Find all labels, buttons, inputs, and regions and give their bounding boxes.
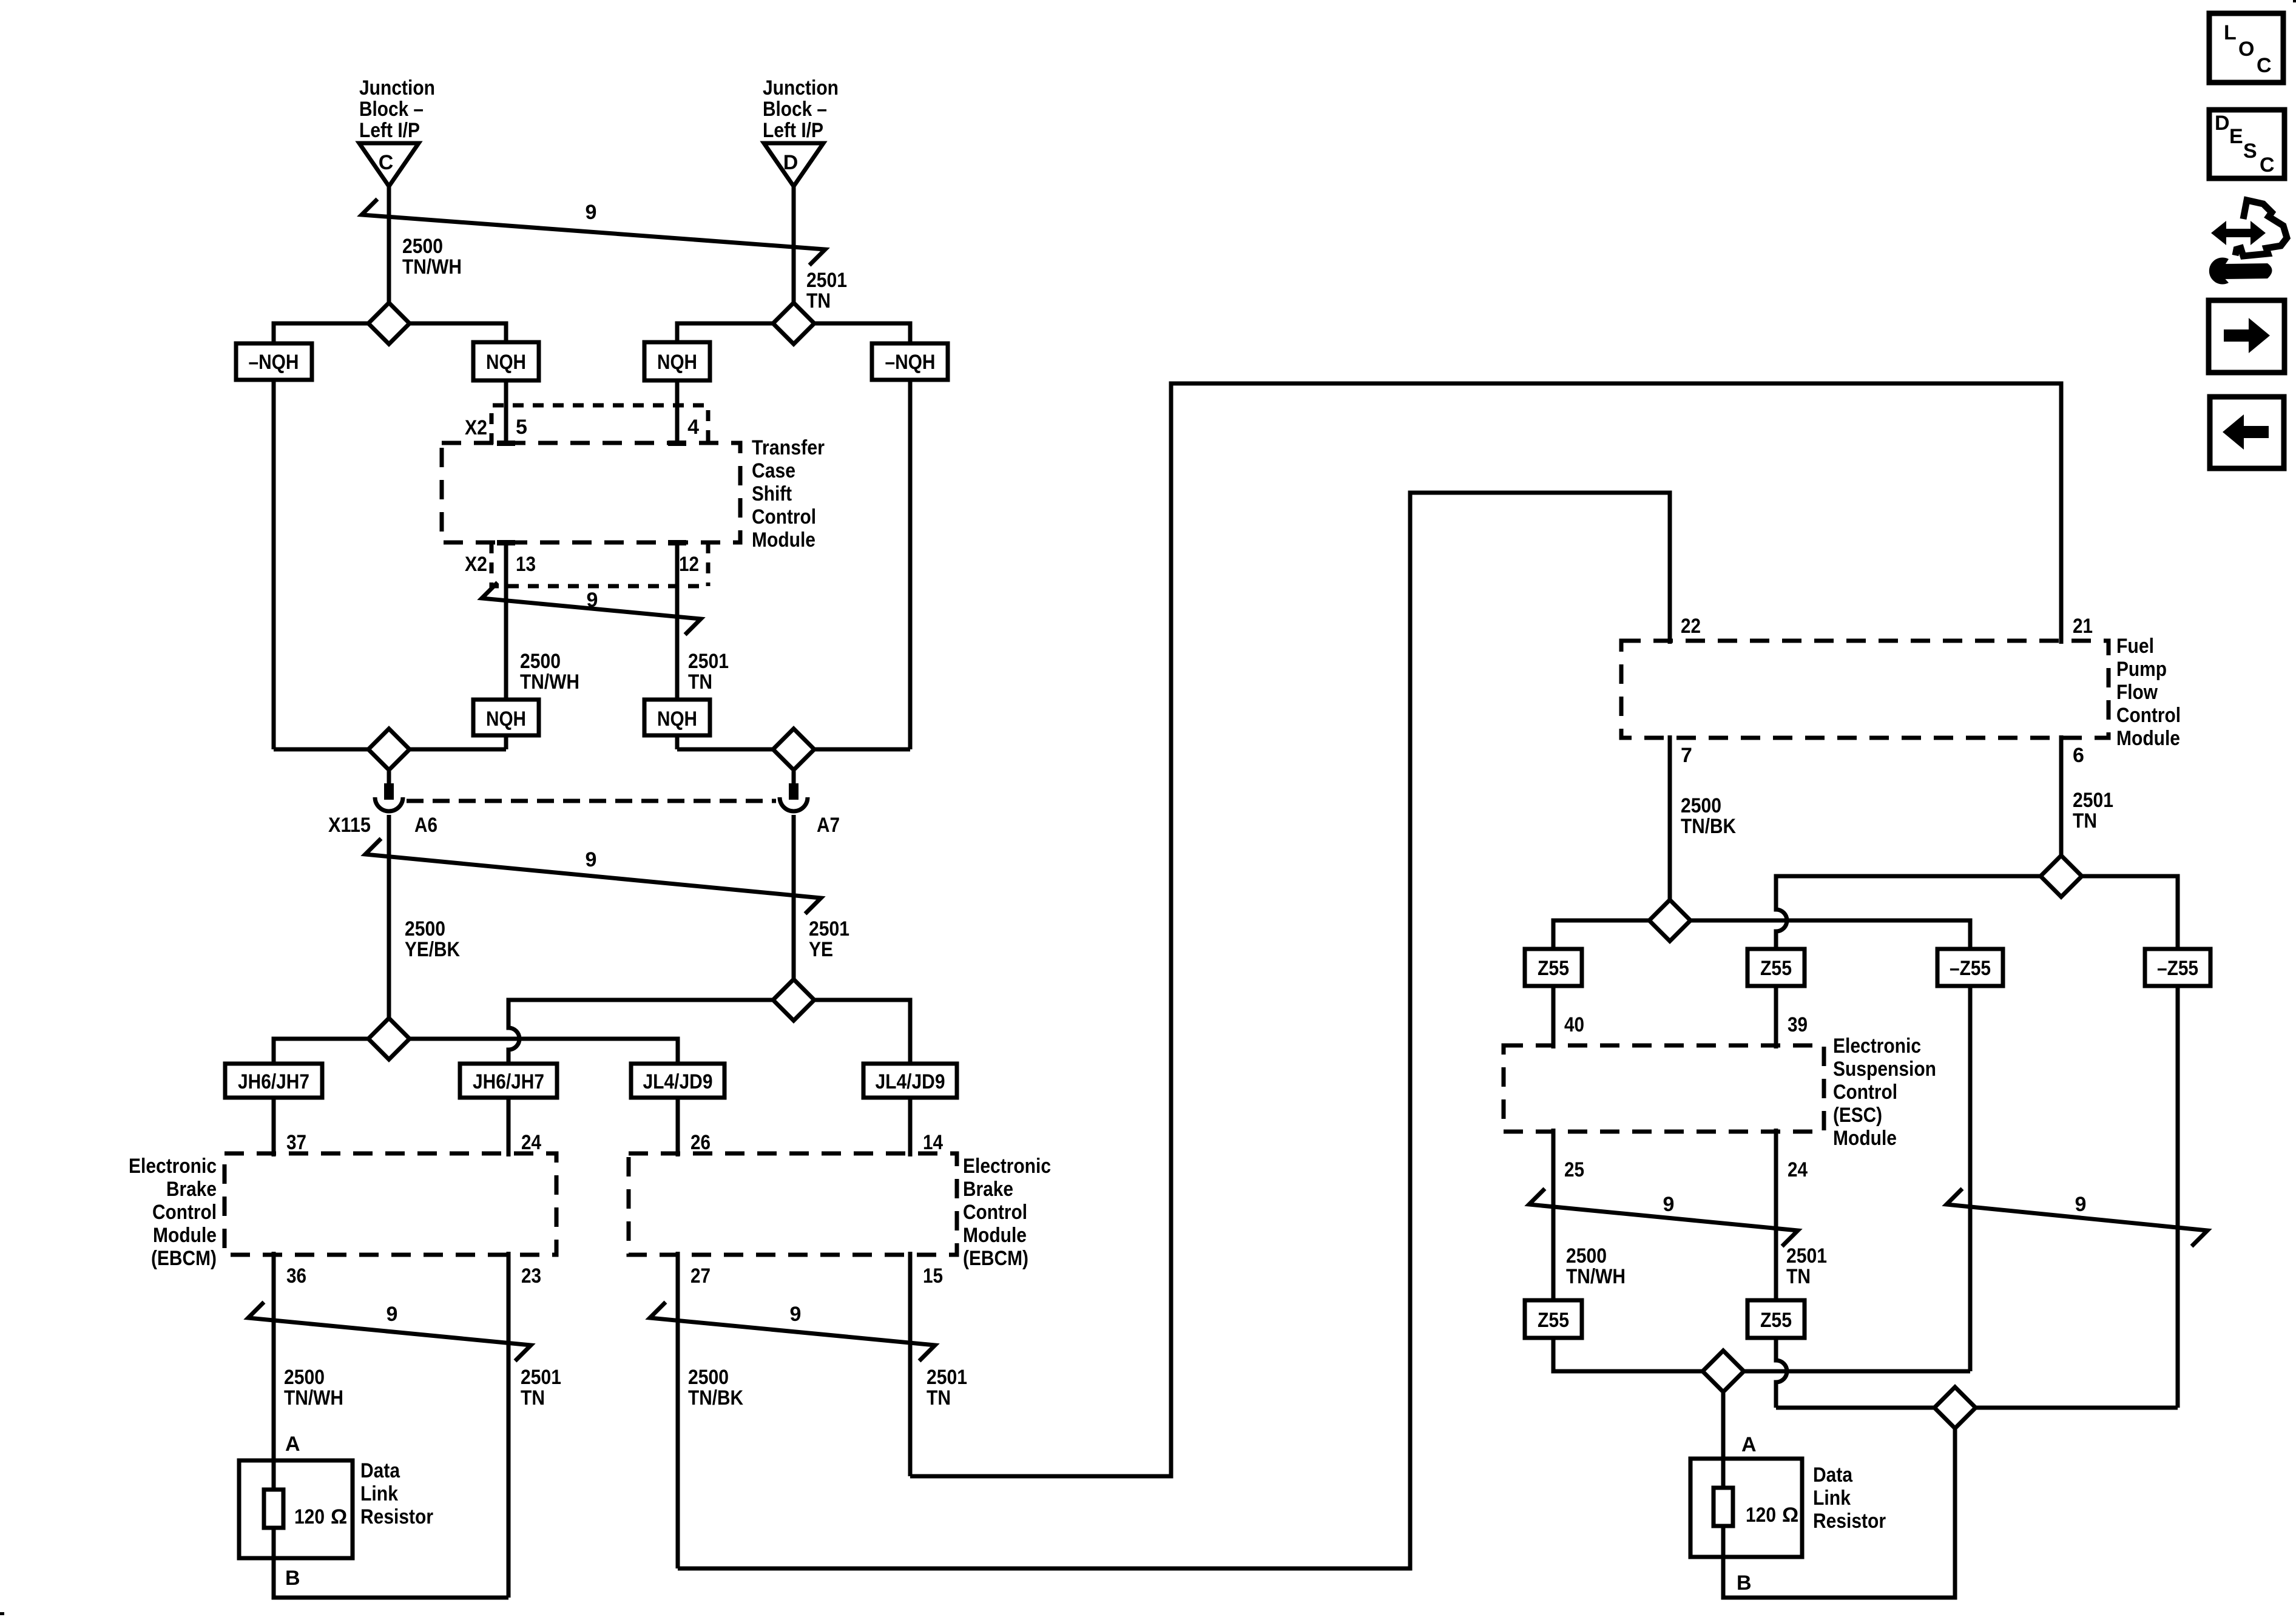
splice diamond on A6 bus — [368, 1018, 410, 1059]
svg-text:Block –: Block – — [359, 98, 424, 121]
svg-text:D: D — [783, 151, 799, 174]
ground symbol box Z55 (row2 left) — [1525, 1300, 1582, 1338]
wire EBCM pin 27 down (2500 TN/BK) — [676, 1252, 680, 1568]
svg-text:Electronic: Electronic — [1833, 1035, 1921, 1058]
svg-text:9: 9 — [387, 1303, 398, 1326]
svg-text:Control: Control — [963, 1201, 1027, 1224]
ground symbol box Z55 (row2 center) — [1747, 1300, 1805, 1338]
cable slash 9 across ESC pins 25/24 — [1529, 1189, 1798, 1246]
pin terminal bar 13 — [497, 540, 515, 545]
wire ESC pin 24 down 2501 TN — [1774, 1129, 1778, 1300]
svg-text:25: 25 — [1564, 1158, 1584, 1181]
cable slash 9 across A6/A7 wires — [365, 839, 821, 914]
wire transfer case pin 13 to NQH — [504, 545, 508, 700]
svg-text:Control: Control — [752, 505, 816, 528]
svg-text:L: L — [2224, 21, 2237, 44]
ground symbol box -Z55 (row1 left) — [1937, 949, 2003, 986]
svg-text:12: 12 — [679, 553, 699, 576]
svg-text:(EBCM): (EBCM) — [151, 1247, 217, 1270]
svg-text:O: O — [2238, 38, 2254, 61]
splice diamond above X115 A7 — [773, 729, 814, 770]
connector X115 boundary dashed line — [407, 799, 776, 803]
connector X115 male terminal A7 — [789, 783, 799, 800]
svg-text:B: B — [1737, 1571, 1752, 1595]
wire bus from pin 7 splice to Z55 left and -Z55 left — [1553, 920, 1970, 949]
svg-text:6: 6 — [2073, 744, 2084, 767]
svg-text:36: 36 — [286, 1264, 306, 1288]
svg-text:2501: 2501 — [927, 1366, 967, 1389]
svg-text:TN: TN — [2073, 809, 2097, 832]
svg-text:Electronic: Electronic — [963, 1155, 1051, 1178]
wire fuse to EBCM pin — [507, 1098, 511, 1156]
svg-text:A7: A7 — [817, 814, 840, 837]
svg-text:TN/BK: TN/BK — [1681, 815, 1736, 838]
splice diamond on wire C — [368, 303, 410, 344]
svg-text:(ESC): (ESC) — [1833, 1104, 1882, 1127]
svg-text:9: 9 — [586, 201, 597, 224]
svg-text:Brake: Brake — [166, 1178, 217, 1201]
svg-text:120: 120 — [1746, 1504, 1776, 1527]
svg-text:NQH: NQH — [486, 351, 526, 374]
svg-text:Z55: Z55 — [1538, 957, 1569, 980]
connector X115 female terminal A6 — [375, 797, 403, 811]
svg-text:TN: TN — [927, 1386, 951, 1409]
svg-text:2501: 2501 — [521, 1366, 561, 1389]
splice diamond on wire D — [773, 303, 814, 344]
svg-text:E: E — [2229, 125, 2243, 148]
svg-text:X2: X2 — [465, 416, 487, 439]
svg-text:2501: 2501 — [806, 269, 847, 292]
splice diamond above data link resistor (right) — [1703, 1351, 1744, 1392]
svg-text:Z55: Z55 — [1538, 1309, 1569, 1332]
svg-text:9: 9 — [790, 1303, 802, 1326]
svg-text:Module: Module — [153, 1224, 217, 1247]
wire transfer case pin 12 to NQH — [675, 545, 680, 700]
svg-text:23: 23 — [521, 1264, 541, 1288]
svg-text:Resistor: Resistor — [360, 1505, 433, 1528]
svg-text:Fuel: Fuel — [2116, 635, 2154, 658]
svg-text:Resistor: Resistor — [1813, 1510, 1886, 1533]
svg-text:NQH: NQH — [657, 351, 697, 374]
wire 2500 YE/BK from X115 A6 — [387, 815, 391, 1039]
ground symbol box -Z55 (row1 right) — [2145, 949, 2210, 986]
fuse box JL4/JD9 (left) — [631, 1064, 724, 1098]
svg-text:Ω: Ω — [331, 1505, 347, 1528]
electronic suspension control ESC module (dashed box) — [1504, 1045, 1824, 1132]
wire bus splice row to NQH and -NQH (right) — [677, 323, 910, 343]
svg-text:9: 9 — [586, 848, 597, 871]
wire data link resistor B loop to splice (right) — [1723, 1427, 1955, 1598]
wire -NQH right down to splice — [908, 380, 913, 749]
svg-text:(EBCM): (EBCM) — [963, 1247, 1028, 1270]
svg-text:Control: Control — [152, 1201, 217, 1224]
svg-text:7: 7 — [1681, 744, 1692, 767]
fuse box -NQH (right) — [872, 343, 948, 380]
wire ESC pin 25 down 2500 TN/WH — [1551, 1129, 1556, 1300]
legend icon: back arrow box — [2210, 397, 2284, 468]
resistor R 120 ohm (left) — [272, 1460, 276, 1490]
wire bus from pin 6 splice to Z55 center and -Z55 right — [1776, 876, 2178, 949]
svg-text:Left I/P: Left I/P — [763, 119, 823, 142]
wire -Z55 left down — [1968, 986, 1973, 1371]
page corner mark top right — [2293, 0, 2296, 2]
fuse box NQH (right center) — [644, 342, 710, 380]
svg-text:Transfer: Transfer — [752, 436, 825, 459]
svg-text:C: C — [2260, 154, 2275, 177]
svg-text:14: 14 — [923, 1131, 943, 1154]
svg-text:JH6/JH7: JH6/JH7 — [238, 1070, 309, 1093]
wire splice to connector A6 — [387, 771, 391, 785]
svg-text:27: 27 — [690, 1264, 711, 1288]
pin terminal bar 5 — [497, 441, 515, 446]
fuse box NQH (second row left) — [473, 700, 539, 735]
cable slash 9 across -Z55 wires — [1947, 1189, 2207, 1246]
svg-text:JL4/JD9: JL4/JD9 — [876, 1070, 945, 1093]
junction block connector triangle D — [764, 143, 823, 186]
svg-text:B: B — [285, 1567, 300, 1590]
legend icon LOC box — [2209, 13, 2283, 83]
svg-text:TN/WH: TN/WH — [284, 1386, 343, 1409]
svg-text:A: A — [1741, 1433, 1757, 1456]
svg-text:Z55: Z55 — [1760, 957, 1792, 980]
svg-text:C: C — [379, 151, 394, 174]
svg-text:Junction: Junction — [763, 76, 839, 100]
splice diamond on pin 6 wire — [2041, 856, 2082, 897]
svg-text:TN/WH: TN/WH — [520, 670, 579, 694]
wire -Z55 right down — [2176, 986, 2180, 1408]
svg-text:37: 37 — [286, 1131, 306, 1154]
cable slash 9 across wires C and D — [362, 199, 825, 265]
svg-text:4: 4 — [687, 416, 699, 439]
wire bus from A6 splice to JH6/JH7 left and JL4/JD9 left — [274, 1039, 678, 1064]
wire hop of center wire over A6 bus — [508, 1004, 519, 1064]
fuse box NQH (left center) — [473, 342, 539, 380]
svg-text:Data: Data — [360, 1459, 400, 1482]
electronic brake control module EBCM (left, dashed box) — [225, 1153, 556, 1255]
ground symbol box Z55 (row1 center) — [1747, 949, 1805, 986]
wire 2501 TN from junction block D — [792, 186, 796, 323]
svg-text:JL4/JD9: JL4/JD9 — [643, 1070, 713, 1093]
svg-text:YE: YE — [809, 938, 833, 961]
wire Z55 to ESC pin 39 — [1774, 986, 1778, 1048]
svg-text:Brake: Brake — [963, 1178, 1013, 1201]
fuse box NQH (second row right) — [644, 700, 710, 735]
svg-text:Z55: Z55 — [1760, 1309, 1792, 1332]
electronic brake control module EBCM (right, dashed box) — [629, 1153, 957, 1255]
page corner mark bottom left — [0, 1612, 4, 1615]
splice diamond on pin 7 wire — [1649, 900, 1690, 941]
svg-text:X115: X115 — [328, 814, 371, 837]
svg-text:Link: Link — [360, 1482, 398, 1505]
svg-text:9: 9 — [1663, 1193, 1675, 1216]
svg-text:15: 15 — [923, 1264, 943, 1288]
svg-text:TN/WH: TN/WH — [1566, 1265, 1626, 1288]
cable slash 9 across pins 36/23 — [248, 1302, 531, 1361]
svg-text:Control: Control — [2116, 704, 2181, 727]
svg-text:Junction: Junction — [359, 76, 435, 100]
connector X115 male terminal A6 — [384, 783, 394, 800]
wire splice to connector A7 — [792, 771, 796, 785]
svg-text:40: 40 — [1564, 1013, 1584, 1036]
splice diamond on A7 bus — [773, 979, 814, 1021]
fuse box JH6/JH7 (center) — [460, 1064, 557, 1098]
svg-text:39: 39 — [1788, 1013, 1808, 1036]
wire splice to data link resistor A (right) — [1721, 1393, 1726, 1488]
fuse box -NQH (left) — [236, 343, 312, 380]
svg-text:–NQH: –NQH — [249, 351, 299, 374]
wire fuse to EBCM pin — [908, 1098, 913, 1156]
junction block connector triangle C — [359, 143, 419, 186]
splice diamond on lower bus — [1934, 1387, 1976, 1428]
wire hop of Z55 center wire over pin7 bus — [1776, 880, 1787, 949]
svg-text:2500: 2500 — [1566, 1244, 1607, 1268]
wire bus splice row to -NQH and NQH (left) — [274, 323, 506, 343]
data link resistor (left) box — [239, 1460, 353, 1558]
svg-text:–NQH: –NQH — [885, 351, 936, 374]
svg-text:2500: 2500 — [520, 650, 561, 673]
fuse box JL4/JD9 (right) — [863, 1064, 957, 1098]
wire 2500 TN/WH from junction block C — [387, 186, 391, 323]
svg-text:TN: TN — [1786, 1265, 1811, 1288]
svg-text:Module: Module — [963, 1224, 1027, 1247]
wire EBCM pin 15 down (2501 TN) — [908, 1252, 913, 1476]
wire Z55 to ESC pin 40 — [1551, 986, 1556, 1048]
wire fuse to EBCM pin — [676, 1098, 680, 1156]
svg-text:2501: 2501 — [809, 917, 849, 940]
svg-text:2501: 2501 — [1786, 1244, 1827, 1268]
svg-text:2501: 2501 — [2073, 789, 2113, 812]
wire data link resistor B loop to pin 23 wire — [274, 1558, 508, 1598]
svg-text:TN: TN — [521, 1386, 545, 1409]
connector X115 female terminal A7 — [780, 797, 808, 811]
svg-text:Block –: Block – — [763, 98, 827, 121]
wire 2500 TN/BK fuel pump pin 7 down — [1668, 735, 1672, 920]
svg-text:21: 21 — [2073, 615, 2093, 638]
svg-text:2500: 2500 — [284, 1366, 325, 1389]
wire bus Z55 row2 left to -Z55 left column — [1553, 1338, 1970, 1371]
wire EBCM pin 23 down — [507, 1252, 511, 1598]
svg-text:Left I/P: Left I/P — [359, 119, 420, 142]
fuse box JH6/JH7 (left) — [225, 1064, 322, 1098]
svg-text:C: C — [2257, 54, 2272, 77]
connector X2 top (dotted) — [491, 405, 708, 444]
svg-text:TN: TN — [688, 670, 712, 694]
ground symbol box Z55 (row1 left) — [1525, 949, 1582, 986]
svg-text:TN/BK: TN/BK — [688, 1386, 743, 1409]
svg-text:2500: 2500 — [1681, 794, 1721, 817]
svg-text:Module: Module — [2116, 727, 2180, 750]
data link resistor (right) box — [1690, 1459, 1802, 1557]
svg-text:Pump: Pump — [2116, 658, 2167, 681]
wire bus to splice above X115 A7 — [677, 735, 910, 749]
legend icon: vehicle with double arrow and wrench — [2235, 200, 2287, 256]
wire 2500 TN/BK routing from EBCM pin 27 to fuel pump module pin 22 — [678, 493, 1670, 1568]
wire NQH to transfer case pin 5 — [504, 380, 508, 444]
wire fuse to EBCM pin — [272, 1098, 276, 1156]
svg-text:X2: X2 — [465, 553, 487, 576]
splice diamond above X115 A6 — [368, 729, 410, 770]
svg-text:Data: Data — [1813, 1463, 1853, 1487]
transfer case shift control module (dashed box) — [442, 443, 740, 542]
svg-text:YE/BK: YE/BK — [405, 938, 460, 961]
svg-text:JH6/JH7: JH6/JH7 — [473, 1070, 544, 1093]
wire 2501 TN routing from JL4/JD9 pin 15 to fuel pump module pin 21 — [910, 383, 2061, 1476]
wire bus Z55 row2 center to -Z55 right column — [1776, 986, 2178, 1408]
svg-text:Module: Module — [752, 528, 815, 552]
pin terminal bar 4 — [668, 441, 686, 446]
resistor R 120 ohm (right) — [1714, 1488, 1733, 1526]
svg-text:Electronic: Electronic — [129, 1155, 217, 1178]
legend icon DESC box — [2209, 110, 2284, 178]
svg-text:TN: TN — [806, 289, 831, 312]
svg-text:2500: 2500 — [405, 917, 445, 940]
svg-text:Ω: Ω — [1782, 1504, 1798, 1527]
svg-text:2500: 2500 — [688, 1366, 729, 1389]
svg-text:Suspension: Suspension — [1833, 1058, 1936, 1081]
svg-text:2500: 2500 — [402, 235, 443, 258]
cable slash 9 across pins 13/12 wires — [482, 582, 701, 635]
svg-text:24: 24 — [521, 1131, 541, 1154]
wire bus to splice above X115 A6 — [274, 735, 506, 749]
svg-text:22: 22 — [1681, 615, 1701, 638]
wire -NQH left down to splice — [272, 380, 276, 749]
legend icon: forward arrow box — [2209, 300, 2284, 373]
svg-text:Module: Module — [1833, 1127, 1897, 1150]
wire bus from A7 splice to JH6/JH7 center and JL4/JD9 right — [508, 1000, 910, 1064]
svg-text:24: 24 — [1788, 1158, 1808, 1181]
svg-text:D: D — [2215, 112, 2230, 135]
wire EBCM pin 36 to data link resistor A — [272, 1252, 276, 1460]
svg-text:Link: Link — [1813, 1487, 1851, 1510]
svg-text:5: 5 — [516, 416, 527, 439]
svg-text:Control: Control — [1833, 1081, 1897, 1104]
wire 2501 YE from X115 A7 — [792, 815, 796, 1000]
pin terminal bar 12 — [668, 540, 686, 545]
svg-text:Shift: Shift — [752, 482, 792, 505]
svg-text:Flow: Flow — [2116, 681, 2158, 704]
wire hop of Z55 center row2 wire over bus — [1776, 1338, 1787, 1408]
cable slash 9 across pins 27/15 — [650, 1302, 935, 1361]
svg-text:S: S — [2243, 140, 2257, 163]
svg-text:–Z55: –Z55 — [1950, 957, 1991, 980]
svg-text:120: 120 — [294, 1505, 325, 1528]
connector X2 bottom (dotted) — [491, 542, 708, 586]
svg-text:Case: Case — [752, 459, 795, 482]
fuel pump flow control module (dashed box) — [1621, 641, 2109, 738]
wire NQH to transfer case pin 4 — [675, 380, 680, 444]
svg-text:13: 13 — [516, 553, 536, 576]
svg-text:26: 26 — [690, 1131, 711, 1154]
svg-text:NQH: NQH — [486, 707, 526, 731]
svg-text:TN/WH: TN/WH — [402, 255, 462, 279]
svg-text:2501: 2501 — [688, 650, 729, 673]
svg-text:NQH: NQH — [657, 707, 697, 731]
svg-text:9: 9 — [2075, 1193, 2087, 1216]
wire 2501 TN fuel pump pin 6 down — [2059, 735, 2064, 876]
svg-text:–Z55: –Z55 — [2157, 957, 2198, 980]
svg-text:9: 9 — [587, 589, 598, 612]
svg-text:A: A — [285, 1433, 300, 1456]
svg-text:A6: A6 — [414, 814, 437, 837]
